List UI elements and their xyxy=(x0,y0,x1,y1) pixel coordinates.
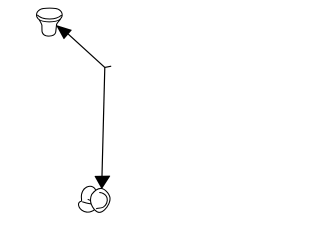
node icon (bottom knob): base top wall line xyxy=(82,202,91,204)
node icon (bottom knob): cap and base blob fill (behind rim) xyxy=(78,186,96,212)
node icon (top knob): rim (cap top) xyxy=(36,8,62,22)
node icon (bottom knob): cap arc outline xyxy=(81,186,95,201)
node icon (top knob): inner rim curve xyxy=(37,15,61,19)
node icon (bottom knob): cap far-side flare line xyxy=(88,199,91,200)
node icon (bottom knob): inner rim C-curve (spiral) xyxy=(96,193,107,209)
node icon (top knob): body outline xyxy=(39,19,60,36)
node icon (bottom knob): base arc outline xyxy=(78,201,94,212)
node icon (bottom knob): rim (top face, egg-shaped outline) xyxy=(91,188,110,212)
arrowhead (pointing at bottom node) xyxy=(95,176,110,188)
node icon (top knob): body fill xyxy=(39,19,60,36)
wire (diagonal segment from joint to top arrowhead) xyxy=(66,32,105,67)
arrowhead (pointing at top node) xyxy=(57,26,72,39)
wire stub (short tick to the right of joint) xyxy=(105,66,111,67)
wire (vertical segment from joint down to bottom arrowhead) xyxy=(102,67,105,177)
